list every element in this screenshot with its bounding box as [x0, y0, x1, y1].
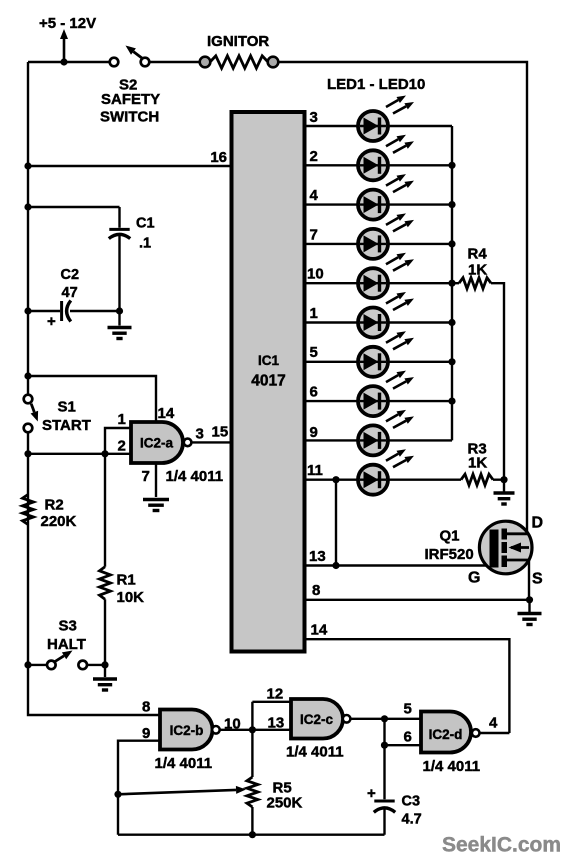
- svg-text:Q1: Q1: [440, 528, 460, 545]
- svg-text:10: 10: [307, 266, 324, 283]
- svg-text:R4: R4: [468, 246, 488, 263]
- svg-text:1/4 4011: 1/4 4011: [286, 744, 344, 761]
- svg-text:C1: C1: [136, 216, 155, 232]
- svg-text:5: 5: [310, 344, 318, 361]
- svg-text:R1: R1: [117, 572, 136, 589]
- svg-text:IC2-b: IC2-b: [170, 723, 204, 738]
- svg-text:4: 4: [489, 715, 498, 732]
- svg-text:10K: 10K: [117, 589, 145, 606]
- svg-text:C3: C3: [402, 794, 421, 810]
- svg-text:S1: S1: [58, 399, 76, 416]
- svg-text:3: 3: [310, 109, 318, 126]
- svg-text:IC2-d: IC2-d: [429, 727, 463, 742]
- svg-text:C2: C2: [61, 267, 80, 283]
- svg-text:HALT: HALT: [47, 636, 86, 653]
- svg-text:6: 6: [310, 384, 318, 401]
- svg-text:7: 7: [310, 227, 318, 244]
- svg-text:SWITCH: SWITCH: [100, 109, 159, 126]
- svg-text:SeekIC.com: SeekIC.com: [442, 834, 561, 857]
- svg-text:1/4 4011: 1/4 4011: [423, 758, 481, 775]
- svg-text:IC2-a: IC2-a: [140, 436, 174, 451]
- svg-text:1: 1: [118, 411, 126, 428]
- svg-text:.1: .1: [139, 236, 151, 252]
- svg-text:16: 16: [210, 149, 227, 166]
- svg-text:47: 47: [62, 285, 78, 301]
- svg-text:IC2-c: IC2-c: [300, 712, 334, 727]
- svg-text:G: G: [468, 570, 480, 587]
- svg-text:4017: 4017: [251, 373, 285, 390]
- svg-text:IC1: IC1: [258, 353, 280, 368]
- svg-text:14: 14: [158, 405, 175, 422]
- svg-text:220K: 220K: [41, 513, 77, 530]
- svg-text:1/4 4011: 1/4 4011: [166, 468, 224, 485]
- svg-text:SAFETY: SAFETY: [101, 91, 160, 108]
- svg-text:6: 6: [404, 729, 412, 746]
- svg-text:15: 15: [212, 424, 229, 441]
- svg-text:11: 11: [307, 462, 323, 479]
- svg-text:R2: R2: [45, 497, 64, 514]
- svg-text:14: 14: [311, 622, 328, 639]
- svg-text:1K: 1K: [468, 262, 487, 279]
- svg-text:8: 8: [312, 582, 320, 599]
- svg-text:4: 4: [310, 187, 319, 204]
- svg-text:S3: S3: [59, 618, 77, 635]
- svg-text:3: 3: [196, 426, 204, 443]
- svg-text:13: 13: [268, 715, 285, 732]
- svg-text:9: 9: [310, 424, 318, 441]
- svg-text:4.7: 4.7: [402, 812, 422, 828]
- svg-text:1/4 4011: 1/4 4011: [155, 755, 213, 772]
- svg-text:1: 1: [310, 305, 318, 322]
- svg-text:2: 2: [118, 438, 126, 455]
- svg-text:1K: 1K: [468, 455, 487, 472]
- svg-text:12: 12: [267, 686, 284, 703]
- svg-text:250K: 250K: [267, 795, 303, 812]
- svg-text:+: +: [47, 313, 56, 330]
- svg-text:+5 - 12V: +5 - 12V: [39, 15, 96, 32]
- svg-text:+: +: [367, 785, 376, 802]
- svg-text:8: 8: [142, 699, 150, 716]
- svg-text:START: START: [42, 417, 91, 434]
- svg-text:7: 7: [142, 468, 150, 485]
- svg-text:D: D: [532, 515, 544, 532]
- svg-text:9: 9: [142, 725, 150, 742]
- svg-text:IRF520: IRF520: [425, 546, 474, 563]
- svg-text:2: 2: [310, 148, 318, 165]
- svg-text:13: 13: [309, 548, 326, 565]
- svg-text:10: 10: [224, 716, 241, 733]
- svg-text:IGNITOR: IGNITOR: [207, 33, 269, 50]
- svg-text:S: S: [532, 571, 543, 588]
- svg-text:LED1 - LED10: LED1 - LED10: [327, 76, 425, 93]
- svg-text:5: 5: [404, 701, 412, 718]
